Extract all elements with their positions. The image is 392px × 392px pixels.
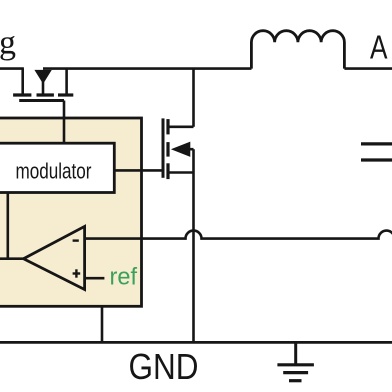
transistor Q2 (NMOS, synchronous rectifier) (163, 118, 194, 179)
wire: Q1 gate drive down to modulator (63, 101, 66, 144)
modulator box (0, 143, 114, 192)
wire: modulator output to Q2 gate (114, 169, 161, 172)
wire: top rail right of inductor (344, 67, 392, 70)
wire: ref to non-inverting input (85, 277, 105, 280)
inductor L (251, 31, 344, 69)
wire: top rail (diode anode / switch node to inductor) (43, 67, 252, 70)
controller block (tan box) (0, 118, 142, 306)
capacitor C (output cap, cropped at right edge) (361, 144, 392, 160)
wire: error amp output up to modulator input (7, 193, 10, 259)
wire: feedback line to inverting input (hops over two verticals) (85, 231, 392, 239)
ground symbol (277, 342, 314, 380)
wire: source rail from left edge to Q1 source lead (0, 67, 24, 70)
body diode of Q1 (35, 70, 51, 94)
body arrow of Q2 (172, 142, 193, 172)
wire: switch node to Q2 drain (192, 69, 195, 127)
wire: Q2 source down to ground rail (192, 173, 195, 343)
op-amp U1 (error amplifier) (24, 226, 85, 289)
transistor Q1 (PMOS, high side) (13, 69, 73, 101)
svg-text:g: g (0, 25, 16, 62)
wire: controller block ground connection (101, 306, 104, 342)
wire: op-amp output to left edge (0, 257, 25, 260)
wire: ground rail (0, 341, 392, 344)
svg-text:A: A (370, 30, 388, 67)
svg-text:modulator: modulator (16, 158, 92, 183)
plus sign at non-inverting input (73, 269, 81, 277)
svg-text:GND: GND (129, 346, 199, 387)
minus sign at inverting input (73, 239, 79, 241)
svg-text:ref: ref (110, 263, 138, 290)
